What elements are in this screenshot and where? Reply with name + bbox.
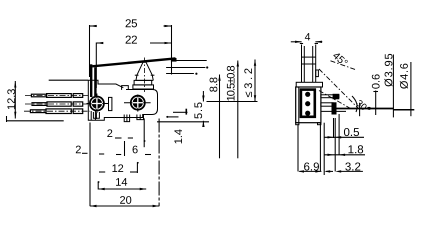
svg-text:3.2: 3.2: [345, 162, 361, 174]
svg-text:20: 20: [119, 195, 131, 207]
svg-text:≤3.2: ≤3.2: [243, 68, 255, 98]
svg-text:4: 4: [305, 31, 311, 43]
svg-text:Ø4.6: Ø4.6: [399, 63, 411, 89]
svg-text:8.8: 8.8: [208, 77, 220, 92]
svg-text:12: 12: [112, 163, 124, 175]
svg-text:0.6: 0.6: [371, 74, 383, 89]
svg-text:Ø3.95: Ø3.95: [383, 53, 395, 87]
svg-text:10.5±0.8: 10.5±0.8: [226, 65, 238, 101]
svg-text:2: 2: [107, 128, 113, 140]
svg-text:14: 14: [115, 177, 127, 189]
svg-text:2: 2: [75, 144, 81, 156]
svg-text:22: 22: [125, 35, 138, 47]
svg-text:25: 25: [125, 18, 138, 30]
svg-text:1.8: 1.8: [348, 144, 364, 156]
svg-text:12.3: 12.3: [6, 89, 18, 110]
svg-text:6.9: 6.9: [303, 161, 319, 173]
svg-text:5.5: 5.5: [193, 102, 205, 119]
svg-text:1.4: 1.4: [173, 129, 185, 144]
svg-text:0.5: 0.5: [344, 127, 360, 139]
svg-text:6: 6: [132, 144, 138, 156]
